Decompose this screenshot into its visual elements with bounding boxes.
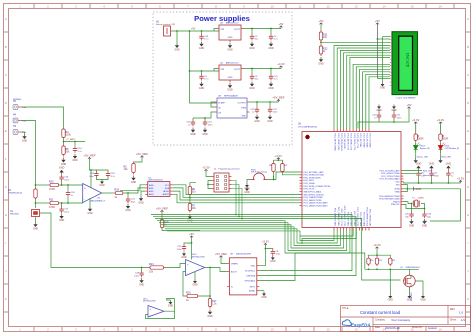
ground LCD vss <box>380 37 386 90</box>
wire mcu bottom extra pins down <box>300 231 356 245</box>
svg-text:PIO1_6/RXD/CT32B0: PIO1_6/RXD/CT32B0 <box>381 173 399 175</box>
mcu bottom pin labels <box>334 206 372 227</box>
svg-text:PIO0_11/AD0/CT32B0: PIO0_11/AD0/CT32B0 <box>304 196 323 199</box>
svg-text:R15: R15 <box>186 291 191 294</box>
easyeda logo <box>342 320 370 328</box>
svg-text:AMS1117-3.3: AMS1117-3.3 <box>226 62 239 65</box>
svg-text:+5V_REF: +5V_REF <box>215 252 227 256</box>
wire R11 to opamp <box>61 198 83 204</box>
wire LED3 down <box>415 153 417 158</box>
svg-text:PIO0_7/CTS: PIO0_7/CTS <box>304 189 315 191</box>
wire q1 source down <box>409 287 411 302</box>
ground C7 <box>446 163 452 171</box>
wire bundle mcu to lcd <box>334 46 390 129</box>
resistor R18 <box>113 188 124 199</box>
svg-text:10: 10 <box>270 4 274 8</box>
ground C6 <box>429 163 435 171</box>
power flag +5V_REF dac <box>215 252 227 258</box>
svg-text:11: 11 <box>298 327 301 331</box>
capacitor C18 <box>66 184 76 204</box>
ground R2 <box>131 176 137 184</box>
svg-text:SCLK/SCL: SCLK/SCL <box>245 270 256 272</box>
wire opamp out <box>102 192 114 194</box>
svg-text:11: 11 <box>298 4 301 8</box>
svg-text:100n: 100n <box>134 275 140 277</box>
pad H3 LOAD- <box>13 126 27 134</box>
ground q1 source <box>407 294 413 302</box>
wire q1 drain up <box>408 269 410 275</box>
svg-text:100n: 100n <box>434 176 440 178</box>
svg-text:16: 16 <box>438 327 442 331</box>
svg-text:-: - <box>150 313 151 317</box>
svg-text:Red_LED: Red_LED <box>423 170 433 172</box>
svg-text:13: 13 <box>354 4 358 8</box>
svg-text:14: 14 <box>382 4 386 8</box>
wire dac vrefd <box>221 259 227 264</box>
capacitor C7 <box>446 171 454 184</box>
ground q1 right <box>415 281 423 294</box>
svg-text:100n: 100n <box>64 211 70 213</box>
svg-text:GND: GND <box>138 201 144 204</box>
svg-text:PIO1_7/TXD/CT32B0: PIO1_7/TXD/CT32B0 <box>381 176 399 178</box>
capacitor C12 <box>186 112 214 136</box>
svg-text:PIO3_4/CT16B0: PIO3_4/CT16B0 <box>359 212 361 226</box>
svg-text:R13: R13 <box>149 263 154 266</box>
ground R5 <box>61 158 67 166</box>
resistor R21 <box>320 26 322 31</box>
capacitor C14 <box>72 141 82 163</box>
wire U2 output to +3.3V <box>244 68 282 70</box>
capacitor C10 <box>372 110 381 120</box>
svg-text:PIO0_4/SCL: PIO0_4/SCL <box>304 180 315 182</box>
power flag +5V_REF out <box>272 96 284 102</box>
wire J1 swclk drop <box>232 185 240 218</box>
pad H2 SENSE+ <box>13 99 27 110</box>
capacitor C22 <box>250 101 260 123</box>
svg-text:AOUT: AOUT <box>231 270 238 273</box>
svg-text:System OK: System OK <box>420 147 431 150</box>
capacitor C20 <box>96 170 115 178</box>
svg-text:GND: GND <box>249 87 255 90</box>
resistor R9 <box>281 162 284 174</box>
capacitor C28 input filter <box>134 267 144 287</box>
svg-text:+5V: +5V <box>406 103 411 107</box>
ground q1 rail left <box>389 269 391 294</box>
capacitor C3 <box>268 28 278 50</box>
resistor R20 <box>368 255 370 256</box>
svg-text:GND: GND <box>192 284 198 287</box>
svg-text:GND: GND <box>207 315 213 318</box>
svg-text:GND: GND <box>380 87 386 90</box>
ground U6 tab <box>227 43 233 51</box>
svg-text:GND: GND <box>72 159 78 162</box>
capacitor C11 <box>392 110 402 120</box>
net label Green_LED <box>404 173 435 177</box>
svg-text:PIO1_8/CT16B1_CAP0: PIO1_8/CT16B1_CAP0 <box>304 171 324 174</box>
resistor R23 <box>376 255 378 256</box>
svg-text:PIO0_2/SSEL0/CT16B0: PIO0_2/SSEL0/CT16B0 <box>304 175 324 177</box>
wire J1 swdio drop <box>232 181 237 216</box>
resistor R7 <box>188 202 196 213</box>
svg-text:100n: 100n <box>273 112 279 114</box>
svg-text:GND: GND <box>249 47 255 50</box>
svg-text:SWCLK/PIO0_10/SCK0: SWCLK/PIO0_10/SCK0 <box>304 194 324 196</box>
pushbutton SW1 ISP-Programming <box>251 169 268 180</box>
capacitor C25 xtal <box>405 203 415 228</box>
svg-text:PIO1_5/CT32B0_CAP0: PIO1_5/CT32B0_CAP0 <box>380 169 400 172</box>
pad H4 LOAD+ <box>13 115 27 123</box>
svg-text:100n: 100n <box>275 254 281 256</box>
svg-text:+: + <box>187 262 189 266</box>
power flag +5V LCD <box>375 19 380 25</box>
title block <box>341 306 471 332</box>
svg-text:Drawn By:: Drawn By: <box>412 326 423 329</box>
svg-text:GND: GND <box>22 139 28 142</box>
svg-text:SWDIO/PIO1_3/AD4: SWDIO/PIO1_3/AD4 <box>304 190 322 193</box>
svg-text:A: A <box>5 17 7 21</box>
svg-text:GND: GND <box>33 227 39 230</box>
capacitor C6 <box>429 171 439 184</box>
capacitor C26 xtal <box>422 208 432 228</box>
svg-text:PIO2_7/CT32B0: PIO2_7/CT32B0 <box>369 134 371 148</box>
svg-text:TRIM: TRIM <box>241 108 246 110</box>
ground opamp2 <box>192 272 198 287</box>
svg-text:DAC8551IDGKR: DAC8551IDGKR <box>236 253 252 256</box>
resistor R11 <box>48 198 61 209</box>
wire xtalin <box>404 202 412 204</box>
svg-text:PIO3_0/DTR_CT16: PIO3_0/DTR_CT16 <box>346 134 348 151</box>
svg-text:Green_LED: Green_LED <box>417 156 429 159</box>
svg-text:GND: GND <box>59 219 65 222</box>
svg-text:GND: GND <box>446 163 452 166</box>
svg-text:Sheet:: Sheet: <box>450 318 457 321</box>
svg-text:H: H <box>467 213 469 217</box>
capacitor C24 filter <box>125 192 136 212</box>
capacitor C16b row2 <box>199 70 209 90</box>
ground flag label <box>414 187 422 191</box>
wire U2 input jog <box>214 69 217 72</box>
wire dac vdd <box>259 246 266 266</box>
svg-text:Your Company: Your Company <box>391 318 411 322</box>
svg-text:+9V: +9V <box>191 28 196 31</box>
LED LED3 green system ok <box>412 118 430 158</box>
svg-text:+5V_REF: +5V_REF <box>136 152 148 156</box>
svg-text:REV:: REV: <box>450 309 456 311</box>
power flag +5V_REF opamp supply <box>83 154 95 160</box>
svg-text:GND: GND <box>318 62 324 65</box>
svg-text:470R: 470R <box>49 206 55 209</box>
svg-text:GND: GND <box>254 120 260 123</box>
svg-text:100n: 100n <box>208 124 214 126</box>
svg-text:16x2 LCD: 16x2 LCD <box>406 53 410 68</box>
svg-text:GND: GND <box>415 187 421 191</box>
svg-text:ADDR: ADDR <box>163 190 169 193</box>
svg-text:GND: GND <box>409 224 415 227</box>
wire q1 lower rail <box>365 268 419 270</box>
wire contrast to LCD <box>321 41 390 43</box>
svg-text:PIO0_6/USB_CONNECT/SCK0: PIO0_6/USB_CONNECT/SCK0 <box>304 186 331 188</box>
wire J1 pin8 drop <box>232 189 243 220</box>
svg-text:PIO3_3/RI_CT16: PIO3_3/RI_CT16 <box>356 134 358 149</box>
capacitor C16 <box>59 166 70 186</box>
svg-text:GND: GND <box>388 299 394 302</box>
wire caps rail <box>379 110 409 123</box>
wire U1 out down to bottom stage <box>42 213 148 268</box>
svg-text:SLEEP: SLEEP <box>218 103 225 105</box>
svg-text:VOUT: VOUT <box>234 69 241 71</box>
wire R13 to opamp plus <box>166 264 186 268</box>
resistor R17 <box>209 295 211 297</box>
svg-text:PIO1_2/AD3/CT32B1_MAT1: PIO1_2/AD3/CT32B1_MAT1 <box>304 204 328 207</box>
svg-text:GND: GND <box>168 305 174 308</box>
svg-text:1/1: 1/1 <box>461 318 465 322</box>
svg-text:PIO0_9/MOSI0/CT16B0: PIO0_9/MOSI0/CT16B0 <box>379 199 399 201</box>
resistor R1 shunt <box>34 187 37 200</box>
svg-text:PIO3_2/DCD_CT16: PIO3_2/DCD_CT16 <box>353 134 355 151</box>
svg-text:12: 12 <box>326 327 330 331</box>
svg-text:K: K <box>5 297 7 301</box>
ground U2 tab <box>227 83 233 91</box>
svg-text:PIO2_1/DSR_SCK1: PIO2_1/DSR_SCK1 <box>337 134 339 151</box>
svg-text:VSSA: VSSA <box>394 190 400 193</box>
mcu left pin labels <box>304 171 331 208</box>
svg-text:1602 SERIES: 1602 SERIES <box>403 97 416 99</box>
svg-text:B: B <box>467 45 469 49</box>
resistor R22 <box>319 44 328 56</box>
power flag +5V_REF adc <box>136 152 148 158</box>
wire H2 to divider <box>22 107 64 127</box>
svg-text:Green_LED: Green_LED <box>423 174 435 177</box>
svg-text:12MHz: 12MHz <box>418 198 424 200</box>
svg-text:+5V: +5V <box>318 19 323 23</box>
svg-text:+5V_REF: +5V_REF <box>272 96 284 100</box>
ground LED1 <box>438 158 442 163</box>
svg-text:TITLE:: TITLE: <box>342 308 349 310</box>
resistor R10 <box>48 180 61 191</box>
svg-text:MCP602-I/SN: MCP602-I/SN <box>192 257 205 259</box>
svg-text:E: E <box>467 129 469 133</box>
svg-text:VREFD: VREFD <box>231 263 239 265</box>
svg-text:PIO0_3/USB_VBUS: PIO0_3/USB_VBUS <box>304 177 322 179</box>
connector J1 programming <box>212 168 241 193</box>
node divider mid <box>63 140 65 145</box>
svg-text:100n: 100n <box>131 201 137 203</box>
wire rail into mcu <box>358 122 379 129</box>
svg-text:XTALIN: XTALIN <box>393 200 400 203</box>
svg-text:OVP/Shtdwn_IN: OVP/Shtdwn_IN <box>445 147 460 150</box>
svg-text:+5V_REF: +5V_REF <box>83 154 95 158</box>
svg-text:GND: GND <box>99 184 105 187</box>
svg-text:VIN: VIN <box>220 69 224 71</box>
reference U9 REF5050 <box>215 95 250 119</box>
wire xtalout <box>404 204 425 209</box>
wire +9V feed row2 <box>189 70 219 72</box>
svg-text:Red_LED: Red_LED <box>442 157 452 159</box>
svg-text:PIO1_0/AD1/CT32B1: PIO1_0/AD1/CT32B1 <box>304 199 322 202</box>
svg-text:VOUT: VOUT <box>234 29 241 31</box>
svg-text:PIO0_8/MISO0/CT16B0: PIO0_8/MISO0/CT16B0 <box>379 196 399 198</box>
ground H3 <box>22 132 28 142</box>
capacitor C21 <box>268 68 278 90</box>
svg-text:PIO2_5/CT32B0: PIO2_5/CT32B0 <box>362 134 364 148</box>
wire mcu vdd to rail <box>403 182 405 183</box>
svg-text:+3.3V: +3.3V <box>373 243 381 247</box>
svg-text:+3.3V: +3.3V <box>412 118 420 122</box>
svg-text:100n: 100n <box>177 249 183 251</box>
svg-text:R24: R24 <box>392 260 395 262</box>
node R6 R7 <box>189 197 191 202</box>
ground ADC <box>138 191 145 204</box>
wire opamp vplus <box>90 160 92 188</box>
svg-text:1.0: 1.0 <box>459 311 464 315</box>
capacitor C13 <box>202 117 213 136</box>
resistor R13 <box>148 263 166 274</box>
ground R7 <box>187 214 193 222</box>
microcontroller U5 LPC1343 <box>298 124 404 231</box>
ground dac agnd <box>259 291 267 299</box>
svg-text:GND: GND <box>228 37 233 39</box>
capacitor C15 <box>199 30 209 50</box>
svg-text:PIO0_1/CLKOUT_CT32: PIO0_1/CLKOUT_CT32 <box>343 206 345 226</box>
svg-text:VDDA: VDDA <box>394 188 400 191</box>
power flag +5V caps <box>406 103 411 109</box>
svg-text:PIO1_2/SWDIO_AD: PIO1_2/SWDIO_AD <box>369 209 372 227</box>
svg-text:GND: GND <box>87 212 93 215</box>
svg-text:+5V: +5V <box>189 232 194 236</box>
svg-text:F: F <box>467 157 469 161</box>
svg-text:GND: GND <box>199 47 205 50</box>
svg-text:F: F <box>5 157 7 161</box>
wire opamp vminus to gnd <box>87 198 93 215</box>
svg-text:MAX4238AXK+T: MAX4238AXK+T <box>90 200 106 203</box>
svg-text:GND: GND <box>416 163 422 166</box>
resistor R6 <box>188 185 196 197</box>
power flag +3.3V q1 rail <box>373 243 381 249</box>
svg-text:A: A <box>467 17 469 21</box>
svg-text:+5V: +5V <box>278 22 283 26</box>
svg-text:DIN/SDA: DIN/SDA <box>247 274 256 277</box>
capacitor C8 <box>265 249 281 264</box>
power flag +3.3V pullups <box>275 154 283 160</box>
svg-text:Battery terminal -2W: Battery terminal -2W <box>156 23 175 26</box>
svg-text:GND: GND <box>181 256 187 259</box>
wire shunt bottom sense tap <box>35 200 48 208</box>
wire R9 to mcu isp <box>282 174 299 175</box>
LCD module LCD1 <box>390 32 418 100</box>
wire R18 to ADC <box>125 188 146 193</box>
svg-text:GND: GND <box>267 120 273 123</box>
capacitor C5 <box>416 171 425 184</box>
ground U1 <box>33 217 39 231</box>
wire pullup tee <box>274 159 283 162</box>
svg-text:GND: GND <box>202 133 208 136</box>
power flag +3.3V regulator output <box>277 62 285 68</box>
svg-text:LCD1: LCD1 <box>397 97 403 99</box>
wire R10 to opamp <box>61 185 83 188</box>
svg-text:+5V_REF: +5V_REF <box>156 207 168 211</box>
wire ref input jogs <box>211 102 215 103</box>
svg-text:SYNC/AD0: SYNC/AD0 <box>245 279 256 282</box>
ground C11 <box>391 105 397 113</box>
wire ref out to +5V_REF <box>250 101 279 103</box>
power flag +5V_REF r19 <box>156 207 168 213</box>
svg-text:PIO1_1/AD2/CT32B1_MAT0: PIO1_1/AD2/CT32B1_MAT0 <box>304 202 328 205</box>
svg-text:R20: R20 <box>370 260 373 262</box>
DAC U8 DAC8551 <box>227 253 259 295</box>
power flag +3.3V mcu aux <box>262 240 270 246</box>
wire ADC ain0 feed <box>120 185 145 191</box>
svg-text:12: 12 <box>326 4 330 8</box>
svg-text:Programming connector: Programming connector <box>219 168 241 171</box>
svg-text:Constant current load: Constant current load <box>360 310 401 315</box>
capacitor C23 <box>267 101 278 123</box>
wire U6 output to +5V <box>244 28 282 30</box>
svg-text:+3.3V: +3.3V <box>262 240 270 244</box>
ground LED3 <box>414 158 418 163</box>
mcu top pin labels <box>334 134 371 152</box>
svg-text:Company:: Company: <box>375 319 386 321</box>
svg-text:R18: R18 <box>114 188 119 191</box>
svg-text:-: - <box>84 197 85 201</box>
power flag +5V opamp2 <box>189 232 194 238</box>
LCD pin wires short <box>377 37 390 79</box>
resistor R5 <box>62 144 70 157</box>
svg-text:PIO2_3/RI_MOSI1: PIO2_3/RI_MOSI1 <box>343 134 345 150</box>
wire opamp2 out to dac aout <box>205 267 227 272</box>
svg-text:R11: R11 <box>49 198 54 201</box>
mcu right pin labels <box>379 169 400 206</box>
wire ADC scl <box>172 185 299 195</box>
svg-text:+V_BATT: +V_BATT <box>66 138 76 141</box>
svg-text:GND: GND <box>125 209 131 212</box>
wire battery to +9V rail <box>173 30 219 32</box>
svg-text:15: 15 <box>410 4 414 8</box>
ground C5 <box>416 163 422 171</box>
svg-text:OUTPUT: OUTPUT <box>237 103 246 105</box>
wire ADC addr <box>172 191 299 200</box>
wire R19 to bundle <box>162 230 200 231</box>
svg-text:VDD: VDD <box>251 266 256 268</box>
svg-text:GND: GND <box>244 188 250 191</box>
svg-text:PIO1_4/AD5/CT32B1: PIO1_4/AD5/CT32B1 <box>334 208 337 226</box>
capacitor C17 <box>59 202 70 222</box>
resistor R2 <box>134 159 143 163</box>
svg-text:WSL2816: WSL2816 <box>10 214 20 216</box>
capacitor C19 <box>89 170 99 178</box>
svg-text:-: - <box>187 271 188 275</box>
ground J1 gnd2 <box>207 184 250 195</box>
wire ADC alert <box>172 194 299 203</box>
ground R17 <box>207 310 213 318</box>
svg-text:tyassin: tyassin <box>428 326 437 330</box>
ground U6.1 plus <box>167 299 174 308</box>
svg-text:470R: 470R <box>49 188 55 191</box>
svg-text:GND: GND <box>59 166 65 169</box>
svg-text:LPC1343FBD48/151: LPC1343FBD48/151 <box>298 126 318 128</box>
svg-text:GND: GND <box>268 87 274 90</box>
ground decoupling pair <box>96 178 108 188</box>
svg-text:Date:: Date: <box>375 326 381 329</box>
svg-text:100n: 100n <box>397 117 403 119</box>
svg-text:GND: GND <box>228 77 233 79</box>
svg-text:100k: 100k <box>65 133 71 136</box>
svg-text:16: 16 <box>438 4 442 8</box>
resistor R15 <box>185 291 200 302</box>
op-amp U3 MAX4238 <box>83 184 106 203</box>
svg-text:EasyEDA: EasyEDA <box>351 323 371 328</box>
wire +3.3V cap rail <box>404 182 461 184</box>
svg-text:560R: 560R <box>418 137 424 140</box>
